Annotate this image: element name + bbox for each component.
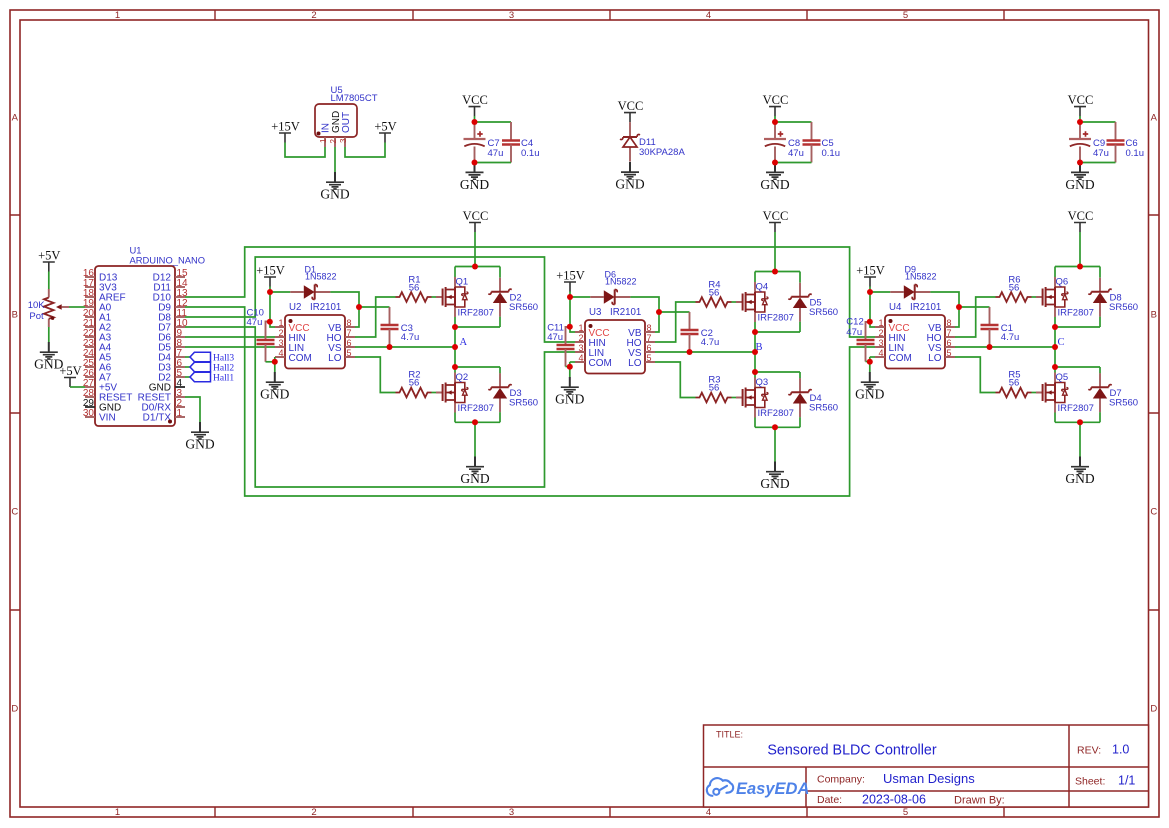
svg-text:Sensored BLDC Controller: Sensored BLDC Controller bbox=[767, 743, 936, 759]
TVS diode D11 30KPA28A bbox=[620, 122, 640, 161]
svg-text:56: 56 bbox=[1009, 283, 1020, 294]
svg-text:47u: 47u bbox=[488, 148, 504, 159]
lead C8 bottom bbox=[774, 147, 776, 163]
svg-text:A: A bbox=[1151, 113, 1158, 124]
lead C3 top bbox=[389, 307, 391, 325]
node A bbox=[460, 337, 468, 348]
svg-text:Q6: Q6 bbox=[1056, 276, 1069, 287]
svg-text:EasyEDA: EasyEDA bbox=[736, 780, 809, 798]
wire U3 LO to R3 bbox=[655, 362, 696, 398]
junction Q4/D5 bbox=[752, 329, 758, 335]
junction VCC pin driver 2 bbox=[567, 324, 573, 330]
svg-text:A: A bbox=[460, 337, 468, 348]
svg-text:+15V: +15V bbox=[556, 269, 585, 283]
wire C12 to COM bbox=[866, 361, 870, 363]
wire VCC stem (C8) bbox=[774, 116, 776, 122]
junction VB/C1 bbox=[956, 304, 962, 310]
wire R5 to Q5 gate bbox=[1032, 392, 1037, 394]
IC U2 IR2101 bbox=[275, 302, 355, 368]
power flag +15V (U5 input) bbox=[271, 120, 300, 143]
potentiometer R 10K bbox=[44, 289, 69, 327]
wire +15V stem (driver 2) bbox=[569, 292, 571, 298]
svg-text:GND: GND bbox=[760, 476, 789, 491]
wire D3 anode down bbox=[499, 412, 501, 422]
svg-text:C: C bbox=[1150, 507, 1157, 518]
wire U3 VS to node B bbox=[655, 351, 755, 353]
lead C5 top bbox=[811, 122, 813, 141]
svg-text:VCC: VCC bbox=[463, 209, 489, 223]
wire to D8 bbox=[1099, 267, 1101, 278]
svg-text:LM7805CT: LM7805CT bbox=[331, 93, 378, 104]
wire D6 to U3 VB bbox=[630, 297, 659, 332]
junction C9 bottom bbox=[1077, 160, 1083, 166]
schottky diode D4 SR560 bbox=[788, 378, 838, 417]
power flag +15V (driver 3) bbox=[856, 264, 885, 287]
svg-text:VCC: VCC bbox=[462, 93, 488, 107]
svg-text:0.1u: 0.1u bbox=[521, 148, 540, 159]
wire mid rail top driver 3 bbox=[1055, 326, 1100, 328]
junction Q3/D4 bbox=[752, 369, 758, 375]
svg-text:VCC: VCC bbox=[763, 209, 789, 223]
lead C9 bottom bbox=[1079, 147, 1081, 163]
svg-text:5: 5 bbox=[347, 348, 352, 358]
svg-text:B: B bbox=[1151, 310, 1157, 321]
svg-text:6: 6 bbox=[347, 338, 352, 348]
junction node B bbox=[752, 349, 758, 355]
ground (driver 2 bridge) bbox=[760, 462, 789, 492]
svg-text:Pot: Pot bbox=[29, 311, 44, 322]
svg-text:GND: GND bbox=[320, 187, 349, 202]
wire U4 COM jog bbox=[870, 356, 875, 358]
wire VCC stem driver 3 bbox=[1079, 232, 1081, 267]
svg-text:8: 8 bbox=[347, 318, 352, 328]
svg-text:D1/TX: D1/TX bbox=[143, 413, 172, 424]
wire U3 HO to R4 bbox=[655, 302, 696, 342]
label R5 value bbox=[1008, 370, 1020, 389]
svg-text:IRF2807: IRF2807 bbox=[1058, 403, 1094, 414]
svg-text:1N5822: 1N5822 bbox=[905, 272, 937, 282]
wire C10 to COM bbox=[266, 361, 275, 363]
wire top rail driver 2 bbox=[755, 271, 800, 273]
label pot value bbox=[28, 300, 46, 322]
svg-text:VCC: VCC bbox=[1068, 93, 1094, 107]
svg-text:U2: U2 bbox=[289, 302, 301, 313]
wire net D9 to U4 LIN bbox=[185, 307, 875, 496]
ground (U3 COM) bbox=[555, 377, 584, 407]
wire mid rail top driver 1 bbox=[455, 326, 500, 328]
svg-text:Q4: Q4 bbox=[756, 281, 769, 292]
svg-text:Q1: Q1 bbox=[456, 276, 469, 287]
svg-text:U3: U3 bbox=[589, 307, 601, 318]
wire COM to ground driver 2 bbox=[569, 367, 571, 378]
svg-text:SR560: SR560 bbox=[809, 403, 838, 414]
junction bottom rail driver 1 bbox=[472, 419, 478, 425]
svg-text:2: 2 bbox=[878, 328, 883, 338]
svg-text:IR2101: IR2101 bbox=[310, 302, 341, 313]
lead C5 bottom bbox=[811, 145, 813, 163]
wire VB to C2 bbox=[659, 311, 690, 313]
lead C6 bottom bbox=[1115, 145, 1117, 163]
wire to Q6 drain bbox=[1054, 267, 1056, 278]
lead C6 top bbox=[1115, 122, 1117, 141]
wire bottom rail C8/C5 bbox=[775, 162, 812, 164]
wire +15V to D9 bbox=[870, 291, 890, 293]
svg-text:ARDUINO_NANO: ARDUINO_NANO bbox=[130, 255, 206, 266]
wire VCC stem driver 1 bbox=[474, 232, 476, 267]
svg-text:1: 1 bbox=[115, 10, 120, 21]
label C4 value bbox=[521, 138, 540, 159]
wire COM corner driver 3 bbox=[869, 357, 871, 362]
power flag VCC (driver 2) bbox=[763, 209, 789, 232]
node B bbox=[756, 342, 763, 353]
wire to D5 bbox=[799, 272, 801, 283]
wire node C to Q5 drain bbox=[1054, 347, 1056, 367]
svg-text:D: D bbox=[1150, 704, 1157, 715]
wire net D8 to U3 HIN bbox=[185, 257, 575, 342]
wire top rail driver 1 bbox=[455, 266, 500, 268]
wire U2 COM down bbox=[274, 357, 276, 362]
svg-text:GND: GND bbox=[760, 177, 789, 192]
wire to D4 bbox=[799, 372, 801, 378]
schottky diode D8 SR560 bbox=[1088, 278, 1138, 317]
wire net D6 to U2 HIN bbox=[185, 336, 275, 338]
wire U2 VS to node A bbox=[355, 346, 455, 348]
ground (U1 reset) bbox=[185, 422, 214, 452]
junction C8 bottom bbox=[772, 160, 778, 166]
wire D4 anode down bbox=[799, 417, 801, 427]
title block text TITLE bbox=[716, 730, 743, 740]
lead C3 bottom bbox=[389, 329, 391, 347]
ground (D11) bbox=[615, 162, 644, 192]
junction VCC pin driver 3 bbox=[867, 319, 873, 325]
svg-text:IRF2807: IRF2807 bbox=[458, 403, 494, 414]
label D11 value bbox=[639, 137, 685, 158]
label C5 value bbox=[822, 138, 841, 159]
wire to ground driver 1 bbox=[474, 422, 476, 457]
lead C11 bottom bbox=[565, 349, 567, 367]
wire +15V to U5 IN bbox=[285, 143, 325, 158]
transistor Q2 IRF2807 bbox=[436, 372, 494, 414]
junction C7 top bbox=[472, 119, 478, 125]
label C8 value bbox=[788, 138, 804, 159]
svg-text:COM: COM bbox=[289, 353, 312, 364]
label C3 value bbox=[401, 323, 420, 343]
lead C1 top bbox=[989, 307, 991, 325]
svg-text:VCC: VCC bbox=[618, 99, 644, 113]
label C2 value bbox=[701, 328, 720, 348]
label C6 value bbox=[1126, 138, 1145, 159]
node C bbox=[1058, 337, 1065, 348]
wire U1 to Hall1 bbox=[185, 376, 190, 378]
wire bottom rail driver 1 bbox=[455, 421, 500, 423]
capacitor C8 47u (polarized) bbox=[764, 131, 786, 146]
ground (C7 block) bbox=[460, 162, 489, 192]
svg-text:6: 6 bbox=[947, 338, 952, 348]
wire to Q5 bbox=[1054, 367, 1056, 373]
svg-text:56: 56 bbox=[1009, 378, 1020, 389]
diode D1 1N5822 bbox=[290, 264, 336, 299]
lead C11 top bbox=[566, 327, 569, 345]
wire to D2 bbox=[499, 267, 501, 278]
svg-text:OUT: OUT bbox=[341, 112, 352, 133]
capacitor C7 47u (polarized) bbox=[464, 131, 486, 146]
lead C9 top bbox=[1079, 122, 1081, 139]
lead C12 top bbox=[866, 322, 869, 340]
wire VB to C1 bbox=[959, 306, 990, 308]
capacitor C10 47u bbox=[257, 340, 275, 344]
wire COM corner driver 2 bbox=[569, 362, 571, 367]
junction +15V rail U3 bbox=[567, 294, 573, 300]
svg-text:56: 56 bbox=[709, 383, 720, 394]
svg-text:56: 56 bbox=[409, 378, 420, 389]
label C1 value bbox=[1001, 323, 1020, 343]
title block text Drawn By bbox=[954, 795, 1005, 807]
svg-text:2: 2 bbox=[311, 807, 316, 818]
transistor Q3 IRF2807 bbox=[736, 377, 794, 419]
power flag VCC (driver 3) bbox=[1068, 209, 1094, 232]
junction node C bbox=[1052, 344, 1058, 350]
net label Hall1 bbox=[190, 372, 234, 383]
label R3 value bbox=[708, 375, 720, 394]
svg-text:6: 6 bbox=[647, 343, 652, 353]
svg-text:+15V: +15V bbox=[856, 264, 885, 278]
svg-text:4: 4 bbox=[578, 353, 583, 363]
svg-text:COM: COM bbox=[589, 358, 612, 369]
junction Q2/D3 bbox=[452, 364, 458, 370]
power flag +5V (U5 output) bbox=[374, 120, 396, 143]
wire U1 RESET pin3 to ground bbox=[185, 397, 200, 422]
svg-text:4: 4 bbox=[878, 348, 883, 358]
diode D6 1N5822 bbox=[590, 269, 636, 304]
junction COM driver 2 bbox=[567, 364, 573, 370]
svg-text:A: A bbox=[12, 113, 19, 124]
svg-text:Q2: Q2 bbox=[456, 372, 469, 383]
ground (driver 1 bridge) bbox=[460, 457, 489, 487]
junction VCC rail driver 2 bbox=[772, 269, 778, 275]
schottky diode D7 SR560 bbox=[1088, 373, 1138, 412]
wire D9 to U4 VB bbox=[930, 292, 959, 327]
title block text Date bbox=[817, 794, 842, 806]
ground (C8 block) bbox=[760, 162, 789, 192]
svg-text:IRF2807: IRF2807 bbox=[458, 308, 494, 319]
IC U3 IR2101 bbox=[575, 307, 655, 373]
junction bottom rail driver 3 bbox=[1077, 419, 1083, 425]
junction COM driver 3 bbox=[867, 359, 873, 365]
capacitor C2 4.7u bbox=[681, 330, 699, 334]
wire pot wiper to A0 bbox=[69, 306, 85, 308]
wire to node B bbox=[754, 332, 756, 352]
svg-text:Hall2: Hall2 bbox=[213, 364, 234, 374]
svg-text:VCC: VCC bbox=[1068, 209, 1094, 223]
svg-text:47u: 47u bbox=[788, 148, 804, 159]
wire +15V stem (driver 3) bbox=[869, 287, 871, 293]
svg-text:4.7u: 4.7u bbox=[401, 332, 420, 343]
svg-text:4: 4 bbox=[706, 807, 711, 818]
ground (U5) bbox=[320, 172, 349, 202]
svg-text:Date:: Date: bbox=[817, 794, 842, 806]
ground (pot) bbox=[34, 342, 63, 372]
svg-text:47u: 47u bbox=[547, 332, 563, 343]
resistor R1 56 bbox=[396, 292, 432, 302]
wire to D7 bbox=[1099, 367, 1101, 373]
wire net D5 to U2 LIN bbox=[185, 346, 275, 348]
wire top rail C9/C6 bbox=[1080, 121, 1116, 123]
capacitor C11 47u bbox=[557, 345, 575, 349]
svg-text:VCC: VCC bbox=[763, 93, 789, 107]
svg-text:Hall3: Hall3 bbox=[213, 354, 234, 364]
svg-text:D: D bbox=[11, 704, 18, 715]
wire D8 anode down bbox=[1099, 317, 1101, 327]
wire mid rail top driver 2 bbox=[755, 331, 800, 333]
wire Q5 source down bbox=[1054, 413, 1056, 423]
wire Q4 source down bbox=[754, 322, 756, 332]
wire VB to C3 bbox=[359, 306, 390, 308]
wire R6 to Q6 gate bbox=[1032, 296, 1037, 298]
wire mid rail bottom driver 2 bbox=[755, 371, 800, 373]
resistor R3 56 bbox=[696, 393, 732, 403]
resistor R5 56 bbox=[996, 388, 1032, 398]
svg-text:B: B bbox=[12, 310, 18, 321]
svg-text:1N5822: 1N5822 bbox=[605, 277, 637, 287]
svg-text:LO: LO bbox=[628, 358, 642, 369]
lead C10 bottom bbox=[265, 344, 267, 362]
junction VCC rail driver 3 bbox=[1077, 264, 1083, 270]
junction +15V rail U2 bbox=[267, 289, 273, 295]
title block text REV bbox=[1077, 745, 1101, 757]
ground (C9 block) bbox=[1065, 162, 1094, 192]
label C7 value bbox=[488, 138, 504, 159]
svg-text:4: 4 bbox=[706, 10, 711, 21]
lead C12 bottom bbox=[865, 344, 867, 362]
svg-text:1: 1 bbox=[578, 323, 583, 333]
schottky diode D5 SR560 bbox=[788, 283, 838, 322]
wire C11 to COM bbox=[566, 366, 570, 368]
svg-text:7: 7 bbox=[647, 333, 652, 343]
svg-text:+5V: +5V bbox=[374, 120, 396, 134]
wire to Q3 bbox=[754, 372, 756, 378]
junction C1/VS bbox=[987, 344, 993, 350]
wire R1 to Q1 gate bbox=[432, 296, 437, 298]
capacitor C1 4.7u bbox=[981, 325, 999, 329]
svg-text:47u: 47u bbox=[846, 327, 862, 338]
wire to Q2 bbox=[454, 367, 456, 373]
svg-text:GND: GND bbox=[185, 437, 214, 452]
junction C2/VS bbox=[687, 349, 693, 355]
capacitor C6 0.1u bbox=[1107, 141, 1125, 145]
svg-text:Hall1: Hall1 bbox=[213, 374, 234, 384]
svg-text:0.1u: 0.1u bbox=[822, 148, 841, 159]
wire +15V rail to U3 VCC bbox=[570, 297, 575, 332]
junction Q5/D7 bbox=[1052, 364, 1058, 370]
wire to node A bbox=[454, 327, 456, 347]
svg-text:SR560: SR560 bbox=[809, 307, 838, 318]
wire top rail C7/C4 bbox=[475, 121, 512, 123]
label R1 value bbox=[408, 275, 420, 294]
svg-text:1/1: 1/1 bbox=[1118, 774, 1135, 788]
svg-text:LO: LO bbox=[928, 353, 942, 364]
wire +5V to U1 pin 27 bbox=[70, 386, 85, 388]
svg-text:1.0: 1.0 bbox=[1112, 743, 1129, 757]
power flag +15V (driver 2) bbox=[556, 269, 585, 292]
wire R2 to Q2 gate bbox=[432, 392, 437, 394]
capacitor C4 0.1u bbox=[502, 141, 520, 145]
wire U4 VS to node C bbox=[955, 346, 1055, 348]
wire node B to Q3 drain bbox=[754, 352, 756, 372]
svg-text:GND: GND bbox=[855, 387, 884, 402]
wire +15V to D1 bbox=[270, 291, 290, 293]
svg-text:SR560: SR560 bbox=[509, 302, 538, 313]
junction COM driver 1 bbox=[272, 359, 278, 365]
lead C4 bottom bbox=[510, 145, 512, 163]
svg-text:+15V: +15V bbox=[271, 120, 300, 134]
wire COM to ground driver 3 bbox=[869, 362, 871, 373]
wire U1 to Hall2 bbox=[185, 366, 190, 368]
svg-text:C12: C12 bbox=[846, 317, 863, 328]
wire U1 to Hall3 bbox=[185, 356, 190, 358]
EasyEDA logo bbox=[707, 778, 810, 798]
junction VB/C3 bbox=[356, 304, 362, 310]
title block text title value bbox=[767, 743, 936, 759]
svg-text:7: 7 bbox=[947, 328, 952, 338]
wire D1 to U2 VB bbox=[330, 292, 359, 327]
svg-text:3: 3 bbox=[578, 343, 583, 353]
svg-text:Usman Designs: Usman Designs bbox=[883, 771, 975, 786]
svg-text:4.7u: 4.7u bbox=[701, 337, 720, 348]
svg-text:Company:: Company: bbox=[817, 774, 865, 786]
svg-text:5: 5 bbox=[903, 807, 908, 818]
label C12 value bbox=[846, 317, 863, 339]
wire D7 anode down bbox=[1099, 412, 1101, 422]
lead C2 top bbox=[689, 312, 691, 330]
svg-text:IRF2807: IRF2807 bbox=[758, 408, 794, 419]
capacitor C12 47u bbox=[857, 340, 875, 344]
svg-text:Q3: Q3 bbox=[756, 377, 769, 388]
svg-text:10K: 10K bbox=[28, 300, 46, 311]
wire C8 to ground bbox=[774, 163, 776, 167]
svg-text:4: 4 bbox=[278, 348, 283, 358]
svg-text:COM: COM bbox=[889, 353, 912, 364]
svg-text:1: 1 bbox=[878, 318, 883, 328]
wire top rail driver 3 bbox=[1055, 266, 1100, 268]
power flag VCC (C9 block) bbox=[1068, 93, 1094, 116]
wire COM to ground driver 1 bbox=[274, 362, 276, 373]
label R6 value bbox=[1008, 275, 1020, 294]
diode D9 1N5822 bbox=[890, 264, 936, 299]
svg-text:47u: 47u bbox=[1093, 148, 1109, 159]
svg-text:7: 7 bbox=[347, 328, 352, 338]
lead C2 bottom bbox=[689, 334, 691, 352]
svg-text:GND: GND bbox=[260, 387, 289, 402]
label R2 value bbox=[408, 370, 420, 389]
lead C7 top bbox=[474, 122, 476, 139]
svg-text:2: 2 bbox=[311, 10, 316, 21]
wire to node C bbox=[1054, 327, 1056, 347]
power flag VCC (C7 block) bbox=[462, 93, 488, 116]
svg-text:GND: GND bbox=[460, 177, 489, 192]
capacitor C5 0.1u bbox=[803, 141, 821, 145]
svg-text:3: 3 bbox=[509, 807, 514, 818]
regulator U5 LM7805CT bbox=[315, 85, 378, 147]
junction C7 bottom bbox=[472, 160, 478, 166]
wire to D3 bbox=[499, 367, 501, 373]
power flag VCC (driver 1) bbox=[463, 209, 489, 232]
svg-text:0.1u: 0.1u bbox=[1126, 148, 1145, 159]
title block frame bbox=[704, 725, 1149, 807]
schottky diode D2 SR560 bbox=[488, 278, 538, 317]
wire VCC stem driver 2 bbox=[774, 232, 776, 272]
wire Q2 source down bbox=[454, 413, 456, 423]
label C10 value bbox=[247, 308, 264, 329]
